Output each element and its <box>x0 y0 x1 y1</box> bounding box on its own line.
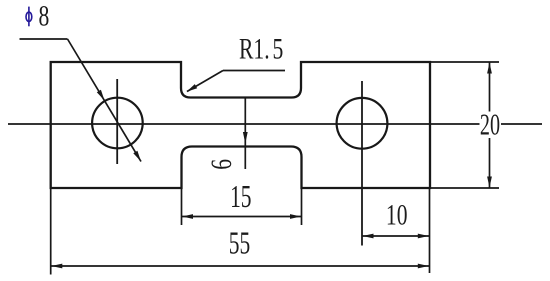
part outline (55x20 plate with top notch and bottom slot) <box>51 62 430 188</box>
arrowhead phi8 upper (at circle edge) <box>97 90 105 101</box>
svg-text:20: 20 <box>480 107 500 141</box>
dimension line 55 <box>51 265 429 267</box>
svg-text:R1.: R1. <box>239 32 270 65</box>
arrowhead 55 left <box>51 264 62 269</box>
arrowhead phi8 lower (at line end) <box>133 151 141 162</box>
leader line for R1.5 <box>187 71 285 92</box>
dimension line 10 <box>362 235 429 237</box>
svg-text:55: 55 <box>229 225 250 260</box>
arrowhead 20 top <box>487 63 492 74</box>
dimension line 6 (vertical, through slot) <box>244 98 246 170</box>
arrowhead 55 right <box>418 264 429 269</box>
svg-text:8: 8 <box>39 0 50 32</box>
hole left (circle) <box>92 98 143 149</box>
extension lines for 55 <box>51 189 430 275</box>
leader line for phi8 <box>20 39 142 162</box>
vertical centerline of left hole <box>116 79 118 164</box>
dimension line 20 (broken for text) <box>489 62 491 188</box>
arrowhead 15 left <box>182 214 193 219</box>
svg-text:6: 6 <box>204 159 237 170</box>
arrowhead 10 right <box>418 234 429 239</box>
arrowhead R1.5 (at notch corner) <box>187 84 198 92</box>
hole right (circle) <box>337 98 388 149</box>
horizontal centerline <box>8 123 542 125</box>
arrowhead 15 right <box>290 214 301 219</box>
svg-text:10: 10 <box>386 198 408 231</box>
label phi8 : custom phi glyph <box>26 7 32 27</box>
extension lines for 20 (top and bottom edges extended right) <box>431 62 499 188</box>
svg-text:15: 15 <box>230 179 251 214</box>
arrowhead 10 left <box>363 234 374 239</box>
svg-text:5: 5 <box>273 32 284 65</box>
dimension line 15 <box>182 216 302 218</box>
arrowhead 6 (down, at slot top edge) <box>243 132 248 144</box>
vertical centerline of right hole / extension line for 10 <box>361 81 363 246</box>
extension lines for 15 <box>182 189 302 225</box>
arrowhead 20 bottom <box>487 177 492 188</box>
